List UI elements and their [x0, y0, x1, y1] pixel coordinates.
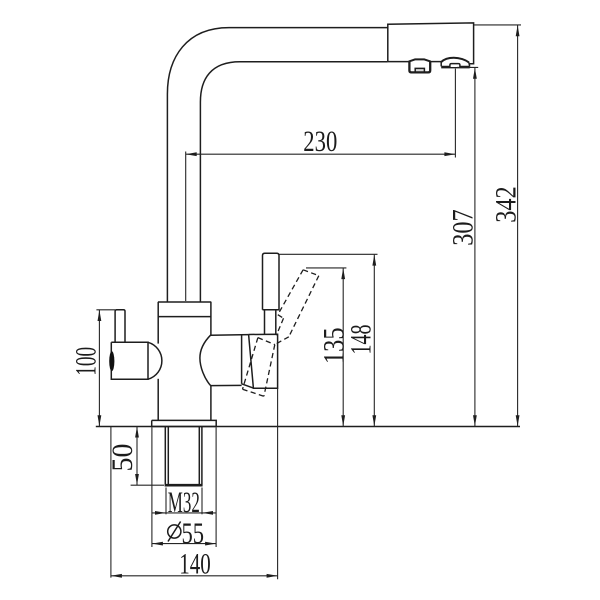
svg-text:M32: M32 [168, 486, 200, 519]
svg-text:140: 140 [179, 548, 211, 581]
svg-text:307: 307 [447, 209, 480, 246]
svg-text:55: 55 [182, 517, 205, 550]
svg-text:100: 100 [70, 347, 103, 376]
svg-text:342: 342 [490, 186, 523, 223]
svg-text:135: 135 [318, 328, 351, 365]
svg-text:230: 230 [303, 125, 337, 158]
svg-text:50: 50 [106, 444, 139, 472]
